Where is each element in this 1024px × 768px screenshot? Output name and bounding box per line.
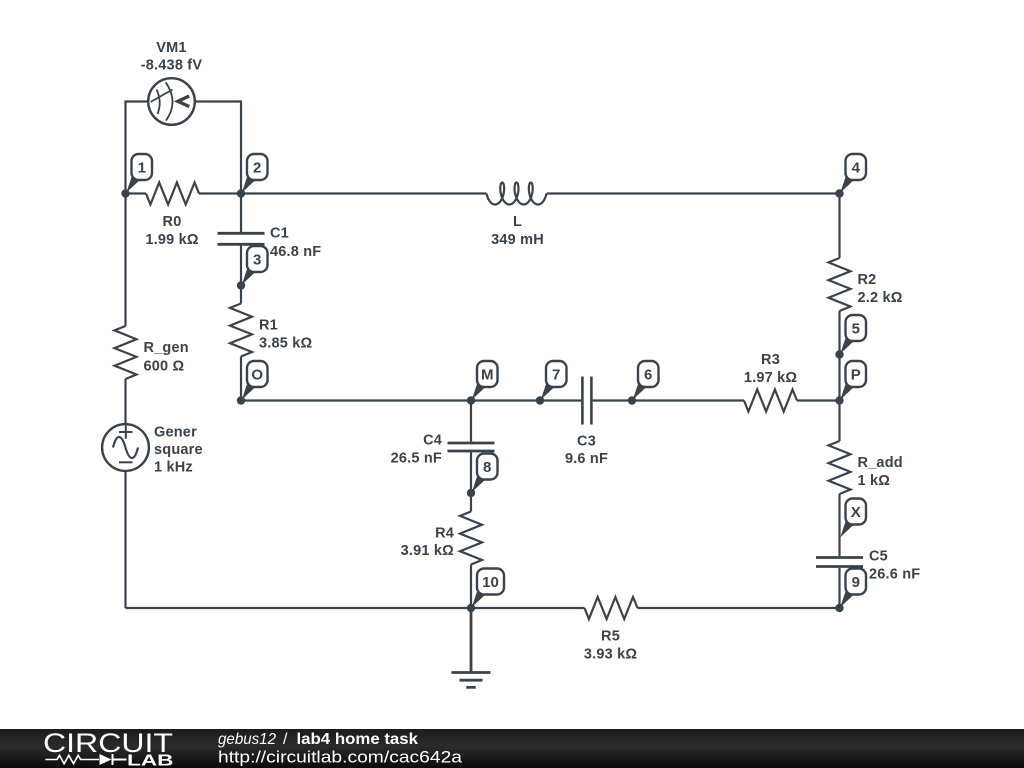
node 6 junction [628,396,636,404]
svg-text:square: square [154,442,203,458]
capacitor C4 [448,443,495,451]
svg-text:LAB: LAB [127,753,174,768]
svg-text:/: / [283,731,288,748]
svg-text:46.8 nF: 46.8 nF [270,244,321,260]
svg-text:gebus12: gebus12 [218,731,276,748]
wire: C4 to node 8 to R4 [470,452,472,511]
svg-text:8: 8 [483,459,491,476]
capacitor C1 [218,233,265,244]
node M junction [467,396,475,404]
svg-text:http://circuitlab.com/cac642a: http://circuitlab.com/cac642a [218,748,463,767]
ground [452,608,491,687]
node 4 flag [840,154,866,193]
svg-text:L: L [513,214,522,230]
node 10 junction [467,604,475,612]
wire: R2 through node5 to node P [838,311,840,401]
svg-text:3.85 kΩ: 3.85 kΩ [259,336,313,352]
svg-text:C1: C1 [270,226,289,242]
svg-text:2: 2 [253,159,261,176]
svg-text:26.5 nF: 26.5 nF [391,451,442,467]
label R2 [858,272,903,306]
inductor L coil [487,183,547,205]
svg-text:O: O [251,366,263,383]
svg-text:P: P [851,366,861,383]
label C3 [565,434,608,468]
node 1 flag [126,154,152,193]
resistor R_add [829,441,851,494]
svg-text:10: 10 [482,574,499,591]
svg-text:Gener: Gener [154,425,197,441]
svg-text:R0: R0 [163,214,182,230]
label C5 [869,549,920,583]
voltmeter VM1 [148,78,195,125]
svg-text:R_add: R_add [858,455,903,471]
capacitor C5 [816,558,863,567]
node 9 junction [835,604,843,612]
node 8 flag [472,454,498,493]
wire: VM1 top loop left segment and left vertical rail [126,102,149,327]
node 9 flag [840,569,866,608]
label C1 [270,226,321,261]
wire: R_gen to source [124,379,126,424]
svg-text:R5: R5 [601,629,620,645]
label C4 [391,433,442,467]
label R1 [259,318,313,352]
wire: inductor to node 4 [547,192,840,194]
svg-text:3.91 kΩ: 3.91 kΩ [401,543,455,559]
wire: R0 to node 2 to inductor [199,192,487,194]
wire: node P to R_add [838,401,840,442]
svg-text:-8.438 fV: -8.438 fV [141,58,203,74]
capacitor C3 [582,377,591,425]
label R0 [145,214,199,248]
resistor R_gen [115,326,137,379]
label Gener [154,425,203,476]
resistor R4 [460,512,482,565]
wire: middle rail O to C3 left plate [241,399,581,401]
node 7 flag [541,361,567,400]
node P flag [840,361,866,400]
node 5 junction [835,350,843,358]
node 3 flag [242,246,268,285]
svg-text:R3: R3 [761,352,780,368]
svg-text:R2: R2 [858,272,877,288]
wire: right rail node4 to R2 [838,194,840,259]
wire: R4 to node 10 [470,565,472,609]
svg-text:lab4 home task: lab4 home task [297,731,419,748]
node 10 flag [472,569,504,608]
node O junction [237,396,245,404]
wire: node 2 down to C1 [240,194,242,233]
node 7 junction [536,396,544,404]
svg-text:9: 9 [852,574,860,591]
wire: bottom rail left part [126,607,585,609]
wire: VM1 right loop down to node 2 [195,102,241,194]
wire: C1 to node 3 to R1 [240,246,242,304]
svg-text:1: 1 [138,159,146,176]
node 2 flag [242,154,268,193]
resistor R5 [585,597,638,619]
svg-text:3: 3 [253,251,261,268]
logo schematic doodle: wire, resistor, diode [45,754,126,765]
svg-text:1 kHz: 1 kHz [154,460,193,476]
svg-text:26.6 nF: 26.6 nF [869,567,920,583]
svg-text:R_gen: R_gen [144,340,189,356]
node 3 junction [237,281,245,289]
label R_add [858,455,903,489]
node 8 junction [467,489,475,497]
node 6 flag [633,361,659,400]
svg-text:9.6 nF: 9.6 nF [565,451,608,467]
svg-text:600 Ω: 600 Ω [144,359,185,375]
node P junction [835,396,843,404]
wire: C5 to bottom right corner [838,568,840,608]
node 4 junction [835,189,843,197]
wire: node M down to C4 [470,401,472,442]
label L [491,214,544,248]
node 1 junction [121,189,129,197]
svg-text:4: 4 [852,159,861,176]
svg-text:7: 7 [552,366,560,383]
footer title: gebus12 / lab4 home task [218,731,418,748]
wire: top rail node1-R0 lead [126,192,147,194]
svg-text:C4: C4 [423,433,442,449]
svg-text:5: 5 [852,320,860,337]
label R5 [584,629,638,663]
svg-text:1.99 kΩ: 1.99 kΩ [145,232,199,248]
resistor R2 [829,258,851,311]
label R_gen [144,340,189,375]
resistor R1 [230,304,252,357]
svg-text:M: M [481,366,494,383]
wire: R3 to node P [797,399,840,401]
svg-text:C5: C5 [869,549,888,565]
wire: C3 right plate to R3 lead [593,399,744,401]
node O flag [242,361,268,400]
wire: R_add through node X to C5 [838,494,840,556]
resistor R0 [146,183,199,205]
label R4 [401,526,455,560]
svg-text:X: X [851,504,861,521]
svg-text:1.97 kΩ: 1.97 kΩ [744,370,798,386]
svg-text:1 kΩ: 1 kΩ [858,473,891,489]
resistor R3 [744,390,797,412]
node 5 flag [840,315,866,354]
svg-text:3.93 kΩ: 3.93 kΩ [584,647,638,663]
wire: R1 to node O [240,357,242,401]
label R3 [744,352,798,386]
svg-text:2.2 kΩ: 2.2 kΩ [858,290,903,306]
svg-text:349 mH: 349 mH [491,232,544,248]
voltage source Gener [102,424,149,471]
wire: source to bottom rail [124,471,126,608]
svg-text:R4: R4 [435,526,454,542]
svg-text:C3: C3 [577,434,596,450]
svg-text:R1: R1 [259,318,278,334]
svg-text:6: 6 [644,366,652,383]
node M flag [472,361,498,400]
node 2 junction [237,189,245,197]
label VM1 [141,40,203,74]
wire: R5 to bottom right corner [638,607,840,609]
svg-text:VM1: VM1 [156,40,186,56]
node X flag [840,499,866,538]
